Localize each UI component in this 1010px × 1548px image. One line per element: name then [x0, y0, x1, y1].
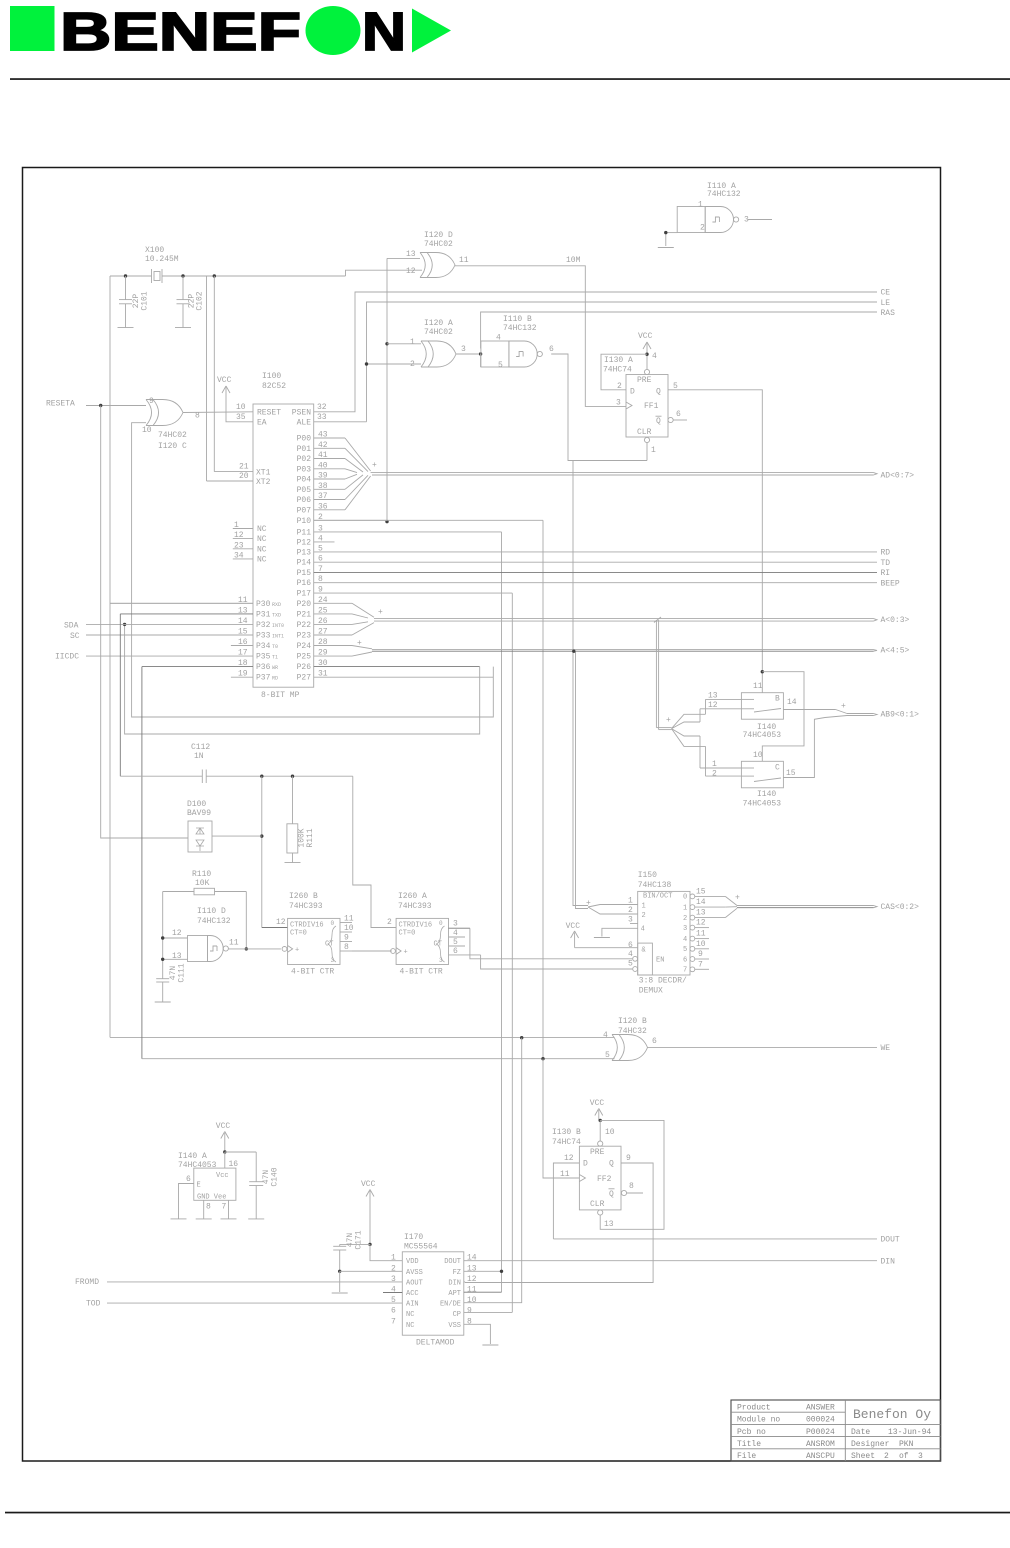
svg-text:RXD: RXD [272, 602, 281, 608]
svg-text:NC: NC [257, 545, 267, 554]
svg-text:Benefon Oy: Benefon Oy [853, 1407, 931, 1422]
svg-text:Sheet: Sheet [851, 1452, 875, 1461]
wire I110A pin2 input [666, 233, 677, 246]
capacitor C102 22P [177, 276, 205, 328]
wire P34 stub [231, 645, 253, 647]
wire P10 row [314, 520, 543, 1058]
wire mux select loop to mux C pin10 [762, 672, 804, 762]
svg-text:4: 4 [603, 1031, 608, 1040]
svg-text:ANSWER: ANSWER [806, 1404, 835, 1413]
svg-text:74HC393: 74HC393 [289, 902, 323, 911]
bus AD<0:7> fan from P00-P07 [314, 438, 377, 510]
svg-text:2: 2 [410, 360, 415, 369]
svg-text:P16: P16 [297, 579, 312, 588]
ground R111 [285, 862, 301, 864]
svg-text:P07: P07 [297, 506, 312, 515]
wire D100 to node [212, 835, 262, 837]
svg-text:MC55564: MC55564 [404, 1243, 438, 1252]
svg-text:82C52: 82C52 [262, 382, 286, 391]
junction FZ [500, 1270, 503, 1273]
svg-text:VCC: VCC [638, 332, 653, 341]
svg-text:Designer: Designer [851, 1440, 890, 1449]
wire I170 CP row [464, 1311, 465, 1313]
wire P17 net to CP [465, 1311, 512, 1313]
svg-text:Q: Q [656, 388, 661, 397]
svg-text:D100: D100 [187, 800, 206, 809]
svg-text:74HC393: 74HC393 [398, 902, 432, 911]
mux I140 74HC4053 section C [712, 751, 796, 809]
bus AB9<0:1> collector [825, 702, 877, 718]
svg-text:PSEN: PSEN [292, 408, 311, 417]
ground I140A pin8 [196, 1218, 212, 1220]
svg-text:A<4:5>: A<4:5> [881, 647, 910, 656]
svg-text:3: 3 [683, 925, 687, 933]
wire XT1 vertical [214, 276, 253, 472]
wire SC to P33 [86, 634, 253, 636]
svg-text:P00: P00 [297, 435, 312, 444]
junction FF2 vcc [599, 1119, 602, 1122]
svg-text:74HC138: 74HC138 [638, 881, 672, 890]
svg-text:2: 2 [391, 1264, 396, 1273]
wire P16 row to BEEP [314, 582, 877, 584]
flip-flop U I130 A 74HC74 FF1 [603, 352, 681, 455]
svg-text:P33: P33 [256, 632, 271, 641]
svg-text:7: 7 [698, 960, 703, 969]
wire I120A pin1 [387, 343, 421, 345]
vcc at FF1 PRE [638, 332, 653, 369]
svg-text:ACC: ACC [406, 1290, 419, 1298]
svg-text:Q: Q [656, 417, 661, 426]
wire ENDE join [464, 1302, 466, 1304]
nand gate I110 A 74HC132 [677, 182, 749, 233]
svg-text:FF1: FF1 [644, 402, 659, 411]
svg-text:+: + [841, 702, 846, 711]
svg-text:12: 12 [276, 918, 286, 927]
wire I120C pin10 from P27 net [132, 423, 494, 717]
wire DOUT line to edge [553, 1238, 877, 1240]
svg-text:8: 8 [629, 1182, 634, 1191]
svg-text:EN/DE: EN/DE [440, 1301, 461, 1309]
junction WE pin4 [520, 1036, 523, 1039]
svg-text:I120 C: I120 C [158, 442, 187, 451]
svg-text:4: 4 [683, 936, 687, 944]
svg-text:PRE: PRE [637, 376, 652, 385]
svg-text:FZ: FZ [453, 1269, 461, 1277]
flip-flop I130 B 74HC74 FF2 [552, 1128, 634, 1229]
svg-text:10: 10 [753, 751, 763, 760]
svg-text:4-BIT CTR: 4-BIT CTR [400, 968, 443, 977]
schematic frame [23, 168, 941, 1462]
title block [731, 1400, 941, 1461]
svg-text:VCC: VCC [217, 376, 232, 385]
svg-text:I260 B: I260 B [289, 892, 318, 901]
svg-text:74HC74: 74HC74 [603, 366, 632, 375]
wire WE output to edge [648, 1047, 878, 1049]
wire C112 node down to D100 [261, 776, 263, 927]
junction D100 node [260, 834, 263, 837]
wire I140A Vee pin7 [228, 1200, 230, 1219]
svg-text:RESET: RESET [257, 408, 281, 417]
ground I140A E [171, 1218, 187, 1220]
wire I150 output stubs [695, 928, 709, 970]
svg-text:20: 20 [239, 472, 249, 481]
wire I170 DOUT to DIN edge [464, 1260, 877, 1262]
wire crystal net left [110, 275, 152, 277]
svg-text:I130 A: I130 A [604, 356, 633, 365]
ic I170 MC55564 DELTAMOD [391, 1233, 477, 1348]
svg-text:35: 35 [236, 413, 246, 422]
svg-text:ANSCPU: ANSCPU [806, 1452, 835, 1461]
svg-text:P22: P22 [297, 621, 312, 630]
svg-text:N: N [362, 2, 406, 62]
wire FF1 CLR net to A45 tap [572, 461, 574, 652]
wire FF2 CLR tied high loop [600, 1120, 664, 1229]
analog switch I140 A 74HC4053 [178, 1152, 238, 1212]
wire ACC stub [383, 1292, 402, 1294]
svg-text:10: 10 [344, 924, 354, 933]
svg-text:I110 B: I110 B [503, 315, 532, 324]
svg-text:P05: P05 [297, 486, 312, 495]
bus A<4:5> to edge [372, 650, 877, 652]
junction P10 row [385, 520, 388, 523]
svg-text:5: 5 [498, 361, 503, 370]
wire P30 row [110, 602, 253, 604]
svg-text:Q: Q [609, 1190, 614, 1199]
svg-text:Date: Date [851, 1428, 870, 1437]
svg-text:P30: P30 [256, 600, 271, 609]
svg-text:IICDC: IICDC [55, 653, 79, 662]
svg-text:I260 A: I260 A [398, 892, 427, 901]
wire XT2 vertical [207, 276, 254, 481]
svg-text:11: 11 [560, 1170, 570, 1179]
junction SDA [123, 623, 126, 626]
svg-text:9: 9 [626, 1154, 631, 1163]
svg-text:33: 33 [317, 413, 327, 422]
wire P15 row to RI [314, 572, 877, 574]
svg-text:DIN: DIN [881, 1258, 896, 1267]
svg-text:Title: Title [737, 1440, 761, 1449]
bus fan to I150 pins 1,2 [586, 899, 638, 914]
svg-text:13: 13 [406, 250, 416, 259]
ground C111 [155, 1001, 171, 1003]
wire P36 row dark [142, 667, 615, 1059]
svg-text:21: 21 [239, 463, 249, 472]
svg-text:+: + [404, 949, 408, 957]
wire FF1 Qbar stub [673, 419, 687, 421]
wire I150 pin3 stub [630, 923, 638, 925]
svg-text:9: 9 [467, 1307, 472, 1316]
svg-text:SDA: SDA [64, 622, 79, 631]
svg-text:P17: P17 [297, 590, 312, 599]
svg-text:1: 1 [234, 521, 239, 530]
svg-text:I120 B: I120 B [618, 1017, 647, 1026]
svg-text:3: 3 [331, 957, 335, 964]
bottom rule [5, 1512, 1010, 1514]
svg-text:P04: P04 [297, 476, 312, 485]
svg-text:FF2: FF2 [597, 1175, 612, 1184]
svg-text:NC: NC [257, 555, 267, 564]
wire I120A output to I110B pin5 [456, 353, 481, 355]
nand gate I110 B 74HC132 [481, 315, 554, 370]
wire FF2 PRE vcc [599, 1120, 601, 1141]
crystal X100 10.245M [145, 246, 179, 283]
wire RAS net from I110B pin4 [481, 312, 877, 367]
junction crystal-C101 [124, 274, 127, 277]
svg-text:9: 9 [698, 950, 703, 959]
svg-text:3: 3 [453, 920, 458, 929]
svg-text:NC: NC [257, 535, 267, 544]
svg-text:C140: C140 [271, 1167, 280, 1186]
svg-text:C: C [775, 764, 780, 773]
wire I260A output 6 to I150 G2B [449, 947, 633, 969]
wire ALE net to I120A pin2 [314, 302, 877, 422]
wire I140A GND pin8 [203, 1200, 205, 1219]
svg-text:D: D [630, 388, 635, 397]
svg-text:10: 10 [696, 940, 706, 949]
svg-text:10M: 10M [566, 256, 581, 265]
svg-text:TOD: TOD [86, 1300, 101, 1309]
capacitor C101 22P [119, 276, 150, 328]
svg-text:DEMUX: DEMUX [639, 987, 663, 996]
top rule [10, 78, 1010, 80]
svg-text:8: 8 [467, 1317, 472, 1326]
svg-text:2: 2 [884, 1452, 889, 1461]
svg-text:5: 5 [628, 960, 633, 969]
wire P12 stub [314, 541, 335, 543]
svg-text:4: 4 [391, 1286, 396, 1295]
svg-text:VCC: VCC [590, 1099, 605, 1108]
svg-text:DOUT: DOUT [444, 1258, 461, 1266]
svg-text:P35: P35 [256, 653, 271, 662]
svg-text:P14: P14 [297, 559, 312, 568]
svg-text:B: B [775, 695, 780, 704]
svg-text:23: 23 [234, 541, 244, 550]
svg-text:ANSROM: ANSROM [806, 1440, 835, 1449]
svg-text:9: 9 [149, 397, 154, 406]
svg-text:EN: EN [656, 957, 664, 965]
bus A<4:5> fan from P24-P25 [314, 639, 372, 656]
vcc at EA pin [217, 376, 253, 422]
ground I170 VSS [482, 1344, 498, 1346]
svg-text:VCC: VCC [566, 922, 581, 931]
svg-text:I140: I140 [757, 790, 776, 799]
wire AVSS row [340, 1270, 403, 1272]
wire P17 row down [314, 593, 513, 1312]
svg-text:10: 10 [236, 403, 246, 412]
svg-text:C112: C112 [191, 743, 210, 752]
svg-text:14: 14 [696, 898, 706, 907]
ic I100 82C52 8-bit MP [233, 372, 328, 700]
svg-text:74HC132: 74HC132 [707, 190, 741, 199]
svg-text:P37: P37 [256, 674, 271, 683]
wire mux B select pin 11 [761, 672, 763, 693]
mux I140 74HC4053 section B [708, 682, 797, 740]
svg-text:R110: R110 [192, 870, 211, 879]
bus tap A<0:3> at x658 [654, 617, 672, 730]
svg-text:4: 4 [496, 334, 501, 343]
wire P31 row to C112 [120, 614, 253, 776]
junction C171 AVSS [338, 1270, 341, 1273]
svg-text:P24: P24 [297, 642, 312, 651]
svg-text:CT=0: CT=0 [399, 930, 416, 938]
svg-text:I100: I100 [262, 372, 281, 381]
svg-text:9: 9 [344, 934, 349, 943]
ground C140 [248, 1218, 264, 1220]
svg-text:EA: EA [257, 418, 267, 427]
svg-text:1: 1 [712, 760, 717, 769]
svg-text:C111: C111 [178, 963, 187, 982]
wire FF1 CLR down [646, 443, 648, 461]
junction osc output [245, 947, 248, 950]
svg-text:11: 11 [344, 915, 354, 924]
svg-text:VDD: VDD [406, 1258, 419, 1266]
svg-text:DIN: DIN [448, 1279, 461, 1287]
wire FF2 Qbar stub [627, 1192, 643, 1194]
svg-text:ALE: ALE [297, 418, 312, 427]
svg-text:LE: LE [881, 299, 891, 308]
svg-text:+: + [372, 461, 377, 470]
svg-text:6: 6 [549, 345, 554, 354]
svg-text:CTRDIV16: CTRDIV16 [290, 922, 324, 930]
wire I170 FZ row [464, 1270, 502, 1272]
junction crystal-XT1 [213, 274, 216, 277]
svg-text:6: 6 [391, 1307, 396, 1316]
svg-text:XT1: XT1 [256, 469, 271, 478]
svg-text:16: 16 [229, 1160, 239, 1169]
svg-text:BIN/OCT: BIN/OCT [643, 893, 672, 901]
svg-text:NC: NC [406, 1322, 414, 1330]
svg-text:11: 11 [696, 930, 706, 939]
junction gate pin13 [161, 958, 164, 961]
wire I170 ENDE row [464, 1302, 465, 1304]
ground I150 pin4 [594, 937, 610, 939]
junction FF1 PRE vcc [645, 353, 648, 356]
svg-text:AIN: AIN [406, 1301, 419, 1309]
wire FF2 D from DOUT [553, 1163, 579, 1239]
wire SDA to P32 [86, 623, 253, 625]
wire mux B output 14 [783, 709, 835, 711]
svg-text:4-BIT CTR: 4-BIT CTR [291, 968, 334, 977]
ground C102 [175, 327, 191, 329]
junction I170 vcc C171 [368, 1243, 371, 1246]
svg-text:7: 7 [683, 967, 687, 975]
svg-text:0: 0 [683, 894, 687, 902]
svg-text:3: 3 [918, 1452, 923, 1461]
wire I260A output 5 stub [449, 938, 466, 947]
svg-text:12: 12 [696, 919, 706, 928]
svg-text:3: 3 [439, 957, 443, 964]
svg-text:C171: C171 [355, 1230, 364, 1249]
svg-text:+: + [666, 716, 671, 725]
diode D100 BAV99 [187, 800, 212, 852]
svg-text:74HC132: 74HC132 [197, 917, 231, 926]
svg-text:13: 13 [172, 952, 182, 961]
wire P10 net vertical [386, 258, 388, 521]
svg-text:5: 5 [391, 1296, 396, 1305]
bus AD<0:7> to edge [371, 473, 877, 475]
vcc at I150 pin6 [566, 922, 638, 948]
svg-text:11: 11 [459, 256, 469, 265]
svg-text:12: 12 [467, 1275, 477, 1284]
svg-text:D: D [583, 1160, 588, 1169]
svg-text:I120 D: I120 D [424, 231, 453, 240]
bus A<0:3> to edge [374, 619, 877, 622]
svg-text:A<0:3>: A<0:3> [881, 616, 910, 625]
wires I260B outputs [340, 915, 392, 953]
wire P10 net to FF2 clock [543, 1059, 579, 1178]
logo green square [10, 6, 55, 51]
svg-text:000024: 000024 [806, 1416, 835, 1425]
bus A<0:3> fan from P20-P23 [314, 603, 383, 635]
svg-text:1: 1 [698, 201, 703, 210]
wire I140A E to ground [179, 1184, 194, 1219]
svg-text:VCC: VCC [216, 1122, 231, 1131]
wire 10M net from I120D output [455, 256, 626, 406]
svg-text:14: 14 [467, 1254, 477, 1263]
svg-text:5: 5 [683, 946, 687, 954]
svg-text:11: 11 [753, 682, 763, 691]
svg-text:32: 32 [317, 403, 327, 412]
svg-text:2: 2 [387, 918, 392, 927]
svg-text:DELTAMOD: DELTAMOD [416, 1339, 455, 1348]
decoder I150 74HC138 [628, 871, 706, 996]
svg-text:NC: NC [257, 525, 267, 534]
svg-text:1N: 1N [194, 752, 204, 761]
wire DIN join [464, 1281, 466, 1284]
svg-text:FROMD: FROMD [75, 1278, 99, 1287]
svg-text:C102: C102 [196, 291, 205, 310]
junction C112 R111 branch [291, 775, 294, 778]
wire crystal net right [162, 270, 422, 276]
svg-text:1: 1 [683, 904, 687, 912]
junction I140A vcc [223, 1150, 226, 1153]
junction P10 net top [385, 342, 388, 345]
svg-text:74HC4053: 74HC4053 [178, 1161, 217, 1170]
capacitor C111 47N [156, 963, 186, 1002]
svg-text:10K: 10K [195, 879, 210, 888]
svg-text:Pcb no: Pcb no [737, 1428, 766, 1437]
wire RESETA vertical to D100 [101, 406, 188, 839]
svg-text:AVSS: AVSS [406, 1269, 423, 1277]
wire P27 row [314, 676, 494, 678]
wire C171 to ground [339, 1271, 341, 1292]
svg-text:of: of [899, 1452, 909, 1461]
svg-text:I110 D: I110 D [197, 907, 226, 916]
svg-text:SC: SC [70, 632, 80, 641]
wire R110 left to gate inputs [163, 892, 194, 979]
wire I170 VSS to ground [464, 1324, 491, 1344]
svg-text:10: 10 [142, 426, 152, 435]
nand gate I110 D 74HC132 oscillator [172, 907, 239, 962]
svg-text:1: 1 [651, 446, 656, 455]
bus CAS<0:2> to edge [737, 906, 877, 908]
wire I140A pin16 vcc [224, 1152, 226, 1168]
wire I260A output 3 to I150 G2A [449, 920, 633, 959]
svg-text:15: 15 [786, 769, 796, 778]
svg-text:P21: P21 [297, 610, 312, 619]
or gate I120 B 74HC32 [603, 1017, 657, 1061]
wire P26 SDA loop [125, 624, 480, 734]
capacitor C140 47N [225, 1152, 280, 1219]
wire VCC to I170 VDD [370, 1244, 402, 1260]
svg-text:P11: P11 [297, 528, 312, 537]
junction WE pin5 [541, 1057, 544, 1060]
wire I110B output 6 to FF1 CLR route [551, 354, 647, 461]
svg-text:WE: WE [881, 1044, 891, 1053]
wire FF1 D tied high [601, 354, 647, 390]
svg-text:WR: WR [272, 665, 278, 671]
counter I260 A 74HC393 [387, 892, 449, 977]
